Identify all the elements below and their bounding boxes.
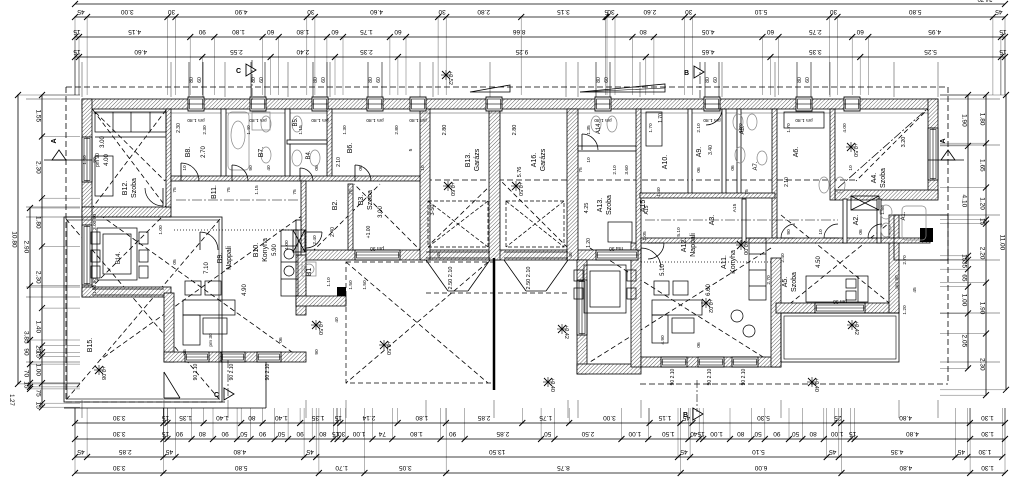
svg-text:30: 30 — [307, 8, 315, 15]
svg-text:+0.42: +0.42 — [563, 325, 569, 339]
svg-text:+0.50: +0.50 — [517, 182, 523, 196]
svg-text:A10.: A10. — [662, 155, 669, 169]
svg-text:2.50 2.10: 2.50 2.10 — [526, 267, 532, 290]
svg-text:80: 80 — [596, 77, 602, 83]
chimney guide a 3 — [312, 62, 314, 97]
level marker +0.00 A — [736, 240, 748, 255]
extension line right 6 — [940, 361, 1000, 363]
shaft box A4-A2 — [851, 196, 879, 210]
terrace diagonal B15 a — [66, 219, 220, 400]
svg-text:2.10: 2.10 — [336, 157, 342, 167]
svg-text:50: 50 — [277, 430, 285, 437]
chimney guide a 1 — [188, 62, 190, 97]
garage B13 ramp base — [448, 290, 468, 292]
dimension chain left inner — [34, 92, 45, 410]
window A12 bottom 1 — [661, 357, 687, 367]
extension line right 4 — [940, 259, 1000, 261]
window A5 bottom pm90 — [815, 303, 865, 313]
svg-text:15: 15 — [999, 48, 1007, 55]
section marker B top — [694, 66, 704, 78]
svg-text:pm 1.80: pm 1.80 — [366, 117, 384, 123]
svg-text:A1.: A1. — [901, 211, 907, 220]
door A14 — [582, 134, 598, 150]
extension line left 2 — [26, 206, 80, 208]
svg-text:2.55: 2.55 — [230, 48, 243, 55]
roof hip top-left — [84, 101, 165, 181]
black pillar right — [920, 228, 933, 242]
wall garage A16 east — [567, 109, 578, 260]
level marker +0.08 B15 — [94, 365, 106, 380]
svg-text:pm 1.80: pm 1.80 — [594, 117, 612, 123]
svg-text:2.50 2.10: 2.50 2.10 — [448, 267, 454, 290]
diagonal cross B12 a — [93, 110, 166, 207]
svg-text:50: 50 — [754, 430, 762, 437]
svg-text:pm 1.80: pm 1.80 — [187, 117, 205, 123]
svg-text:1.70: 1.70 — [658, 113, 664, 123]
exterior wall left bay — [82, 207, 92, 297]
svg-text:B13.: B13. — [465, 153, 472, 167]
extension line bottom 2 — [163, 400, 165, 418]
garage B13 threshold a — [426, 251, 490, 253]
garage A16 floor box — [506, 201, 564, 247]
garage B13 cross a — [428, 201, 488, 247]
toilet A2 — [819, 177, 829, 193]
exterior wall B9 bottom — [164, 352, 306, 362]
eaves line left — [65, 87, 67, 402]
partition A9-A8 — [722, 109, 726, 195]
svg-text:06: 06 — [858, 229, 864, 235]
extension line top 7 — [432, 62, 434, 97]
svg-text:1.80: 1.80 — [410, 430, 423, 437]
section marker C top — [246, 64, 256, 76]
svg-text:45: 45 — [680, 448, 688, 455]
svg-text:+0.40: +0.40 — [549, 378, 555, 392]
svg-text:4.90: 4.90 — [234, 8, 247, 15]
svg-text:3.40: 3.40 — [708, 145, 714, 155]
svg-text:50: 50 — [544, 430, 552, 437]
level marker +0.40 right low — [807, 377, 819, 392]
svg-text:Szoba: Szoba — [880, 168, 887, 188]
extension line left 5 — [26, 296, 80, 298]
svg-text:75: 75 — [744, 189, 750, 195]
svg-text:4.60: 4.60 — [134, 48, 147, 55]
dimension chain bottom row 1 — [72, 414, 1008, 426]
svg-text:45: 45 — [77, 8, 85, 15]
svg-text:1.40: 1.40 — [275, 414, 288, 421]
svg-text:2.10: 2.10 — [696, 123, 702, 133]
section line C upper — [251, 60, 253, 100]
svg-text:15: 15 — [73, 48, 81, 55]
extension line top 8 — [489, 62, 491, 97]
svg-text:B2.: B2. — [332, 200, 339, 211]
bed B12 — [95, 112, 166, 132]
svg-text:A6.: A6. — [793, 147, 800, 158]
window bay left 3.00 — [82, 225, 92, 285]
kitchen counter A11 — [749, 238, 766, 300]
partition A1 west — [877, 199, 881, 243]
roof diagonal A12 b — [590, 248, 771, 362]
roof diagonal A5 b — [781, 215, 899, 311]
garage B13 ramp right — [468, 260, 490, 291]
svg-text:06: 06 — [182, 349, 188, 355]
extension line bottom 10 — [640, 400, 642, 418]
svg-text:60: 60 — [376, 77, 382, 83]
svg-text:15: 15 — [978, 218, 985, 226]
ridge dash-dot A4 — [838, 110, 926, 188]
svg-text:pm 90: pm 90 — [370, 245, 384, 251]
door A9 — [706, 109, 722, 125]
partition A2 west — [843, 199, 847, 243]
svg-text:90 2.10: 90 2.10 — [741, 368, 747, 385]
svg-text:60: 60 — [604, 77, 610, 83]
sink A1 — [880, 205, 892, 219]
svg-text:C: C — [214, 392, 219, 399]
svg-text:40: 40 — [266, 165, 272, 171]
exterior wall A12 bottom — [641, 357, 781, 367]
terrace edge middle — [346, 262, 494, 383]
window top wall 10 — [844, 97, 860, 111]
svg-text:1.20: 1.20 — [978, 197, 985, 210]
garage B13 threshold b — [426, 257, 490, 259]
svg-text:06: 06 — [696, 167, 702, 173]
svg-text:30: 30 — [685, 8, 693, 15]
svg-text:75: 75 — [578, 167, 584, 173]
window B3 bottom pm90 — [355, 250, 400, 260]
svg-text:4.80: 4.80 — [233, 448, 246, 455]
svg-text:50: 50 — [792, 430, 800, 437]
door A3 — [781, 224, 795, 238]
svg-text:90: 90 — [176, 430, 184, 437]
chimney guide b 6 — [718, 62, 720, 97]
dimension chain left lower partial — [22, 205, 33, 392]
svg-text:1.40: 1.40 — [656, 187, 662, 197]
svg-text:45: 45 — [568, 252, 574, 258]
svg-text:90: 90 — [773, 430, 781, 437]
window top wall 6 — [486, 97, 502, 111]
svg-text:pm 90: pm 90 — [894, 275, 900, 289]
svg-text:10.80: 10.80 — [10, 231, 17, 248]
svg-text:A14.: A14. — [596, 121, 602, 134]
chimney guide b 5 — [609, 62, 611, 97]
garage B13 floor box — [428, 201, 488, 247]
svg-text:45: 45 — [165, 448, 173, 455]
svg-text:Garázs: Garázs — [474, 148, 481, 171]
svg-text:4.80: 4.80 — [899, 414, 912, 421]
svg-text:1.70: 1.70 — [738, 123, 744, 133]
corridor guide line A15 — [645, 219, 838, 221]
svg-text:5.10: 5.10 — [752, 448, 765, 455]
roof slope arrow 1 — [470, 85, 510, 92]
svg-text:90: 90 — [221, 430, 229, 437]
armchairs A12 — [654, 281, 669, 295]
door B6 — [355, 165, 371, 181]
garage B13 ramp left — [426, 260, 448, 291]
svg-text:80: 80 — [313, 77, 319, 83]
svg-text:+0.40: +0.40 — [813, 378, 819, 392]
toilet B5 — [292, 116, 302, 132]
svg-text:2.30: 2.30 — [176, 123, 182, 133]
svg-text:1.20: 1.20 — [586, 238, 592, 248]
svg-text:3.20: 3.20 — [901, 137, 907, 148]
eaves line right — [947, 87, 949, 384]
extension line top 9 — [565, 62, 567, 97]
svg-text:1.90: 1.90 — [960, 114, 967, 127]
extension line top 13 — [774, 62, 776, 97]
svg-text:1.00: 1.00 — [158, 225, 164, 235]
svg-text:Konyha: Konyha — [262, 238, 269, 262]
chimney guide a 6 — [704, 62, 706, 97]
svg-text:5.76: 5.76 — [517, 167, 523, 178]
svg-text:90: 90 — [198, 28, 206, 35]
svg-text:pm 1.80: pm 1.80 — [795, 117, 813, 123]
extension line bottom 8 — [567, 400, 569, 418]
window A12 bottom 3 — [732, 357, 758, 367]
extension line top 5 — [329, 62, 331, 97]
chimney guide a 7 — [796, 62, 798, 97]
svg-text:1.00: 1.00 — [960, 294, 967, 307]
svg-text:+0.60: +0.60 — [449, 182, 455, 196]
svg-text:A5.: A5. — [782, 277, 789, 288]
washer B1 — [302, 262, 316, 276]
svg-text:1.50: 1.50 — [662, 430, 675, 437]
svg-text:2.40: 2.40 — [312, 235, 318, 245]
svg-text:1.27: 1.27 — [8, 394, 14, 406]
svg-text:4.05: 4.05 — [701, 28, 714, 35]
window left wall pm90 — [82, 137, 92, 182]
svg-text:34.70: 34.70 — [977, 0, 993, 1]
wall B1 bottom — [296, 296, 346, 306]
svg-text:2.14: 2.14 — [362, 414, 375, 421]
kitchen counter B10 — [281, 230, 298, 296]
terrace door B lines a — [92, 288, 164, 290]
svg-text:45: 45 — [436, 252, 442, 258]
garage A16 ramp right — [546, 260, 568, 291]
svg-text:1.70: 1.70 — [335, 464, 348, 471]
svg-text:5.90: 5.90 — [272, 244, 278, 256]
svg-text:90: 90 — [296, 430, 304, 437]
section line B lower — [696, 380, 698, 412]
wall garage B13 west — [420, 109, 430, 260]
bay wall bottom B14 — [82, 287, 171, 297]
sink A7b — [757, 151, 767, 165]
svg-text:2.20: 2.20 — [978, 247, 985, 260]
extension line top 2 — [170, 62, 172, 97]
section marker A left — [52, 150, 66, 160]
door B2 — [306, 232, 322, 248]
terrace B15 step right — [265, 362, 267, 408]
level marker +0.02 A terrace — [701, 298, 713, 313]
svg-text:60: 60 — [321, 77, 327, 83]
svg-text:80: 80 — [737, 430, 745, 437]
svg-text:1.35: 1.35 — [586, 125, 592, 135]
svg-text:90: 90 — [22, 348, 29, 356]
svg-text:15: 15 — [334, 414, 342, 421]
svg-text:1.75: 1.75 — [360, 28, 373, 35]
partition B1 west — [296, 220, 301, 255]
partition B5-B4 — [287, 140, 327, 144]
svg-text:45: 45 — [995, 8, 1003, 15]
svg-text:1.30: 1.30 — [978, 448, 991, 455]
bay wall top B14 — [82, 207, 171, 217]
svg-text:11.00: 11.00 — [998, 235, 1005, 251]
svg-text:60: 60 — [259, 77, 265, 83]
svg-text:1.00: 1.00 — [352, 430, 365, 437]
svg-text:2.40: 2.40 — [330, 227, 336, 237]
partition B8-B7 — [221, 109, 226, 180]
svg-text:30: 30 — [167, 8, 175, 15]
extension line top 12 — [721, 62, 723, 97]
svg-text:2.70: 2.70 — [766, 275, 772, 285]
svg-text:4.65: 4.65 — [701, 48, 714, 55]
svg-text:2.40: 2.40 — [780, 253, 786, 263]
extension line bottom 1 — [81, 400, 83, 418]
svg-text:74: 74 — [378, 430, 386, 437]
balcony right outline — [894, 215, 948, 260]
svg-text:90: 90 — [92, 157, 98, 163]
terrace B15 inner — [67, 220, 219, 399]
svg-text:1.35: 1.35 — [179, 414, 192, 421]
svg-text:2.30: 2.30 — [34, 161, 41, 174]
svg-text:45: 45 — [829, 448, 837, 455]
svg-text:15: 15 — [697, 430, 705, 437]
terrace A5 inner — [784, 316, 896, 359]
level marker +0.52 top — [441, 70, 453, 85]
svg-text:60: 60 — [394, 28, 402, 35]
svg-text:B: B — [683, 412, 688, 419]
svg-text:9.25: 9.25 — [515, 48, 528, 55]
svg-text:B: B — [684, 70, 689, 77]
svg-text:60: 60 — [331, 28, 339, 35]
svg-text:1.70: 1.70 — [648, 123, 654, 133]
roof valley diagonal B9 a — [100, 215, 303, 360]
svg-text:25: 25 — [834, 414, 842, 421]
dimension chain right mid — [978, 92, 989, 398]
section line C lower — [227, 360, 229, 396]
dining table A — [584, 265, 626, 313]
svg-text:30: 30 — [829, 8, 837, 15]
garage A16 ramp base — [526, 290, 546, 292]
svg-text:2.70: 2.70 — [201, 146, 207, 158]
svg-text:10: 10 — [818, 229, 824, 235]
svg-text:4.00: 4.00 — [104, 154, 110, 166]
svg-text:B14.: B14. — [116, 251, 122, 264]
svg-text:15: 15 — [34, 351, 41, 359]
svg-text:2.60: 2.60 — [643, 8, 656, 15]
svg-text:10: 10 — [848, 165, 854, 171]
svg-text:15: 15 — [34, 402, 41, 410]
svg-text:3.30: 3.30 — [113, 414, 126, 421]
extension guide lines vertical chains — [17, 95, 1007, 407]
svg-text:45: 45 — [306, 448, 314, 455]
svg-text:90 2.10: 90 2.10 — [670, 368, 676, 385]
step triangle bottom-left a — [164, 372, 180, 398]
window top wall 9 — [796, 97, 812, 111]
svg-text:90: 90 — [314, 349, 320, 355]
exterior wall A5 bottom — [776, 303, 899, 313]
svg-text:1.80: 1.80 — [978, 113, 985, 126]
svg-text:1.70: 1.70 — [786, 123, 792, 133]
svg-text:3.15: 3.15 — [557, 8, 570, 15]
svg-text:B7.: B7. — [258, 147, 265, 158]
svg-text:30: 30 — [607, 8, 615, 15]
svg-text:45: 45 — [957, 448, 965, 455]
svg-text:B1: B1 — [306, 268, 313, 277]
terrace B15 step bottom — [64, 407, 266, 409]
extension line right 2 — [940, 144, 1000, 146]
svg-text:B4.: B4. — [306, 150, 312, 159]
svg-text:75: 75 — [292, 189, 298, 195]
svg-text:pm 1.80: pm 1.80 — [703, 117, 721, 123]
party wall between garages — [489, 99, 500, 260]
svg-text:2.75: 2.75 — [809, 28, 822, 35]
svg-text:80: 80 — [639, 28, 647, 35]
svg-text:5.10: 5.10 — [754, 8, 767, 15]
svg-text:4.00: 4.00 — [842, 123, 848, 133]
partition A3-A15 — [742, 199, 746, 243]
svg-text:60: 60 — [766, 28, 774, 35]
window B9 bottom 1 — [185, 352, 209, 362]
svg-text:B12.: B12. — [122, 181, 129, 195]
svg-text:90 2.10: 90 2.10 — [229, 363, 235, 380]
extension line bottom 6 — [425, 400, 427, 418]
svg-text:8.66: 8.66 — [513, 28, 526, 35]
svg-text:1.15: 1.15 — [254, 185, 260, 195]
svg-text:3-50: 3-50 — [430, 204, 436, 215]
window top wall 3 — [312, 97, 328, 111]
level marker +0.42 right — [847, 320, 859, 335]
svg-text:6.60: 6.60 — [706, 284, 712, 296]
roof valley diagonal B9 b — [100, 215, 303, 360]
svg-text:4.90: 4.90 — [242, 284, 248, 296]
door A15 entry — [648, 243, 664, 259]
exterior wall A5 east — [889, 215, 899, 313]
svg-text:B10.: B10. — [253, 243, 260, 257]
svg-text:75: 75 — [34, 390, 41, 398]
svg-text:B8.: B8. — [185, 147, 192, 158]
svg-text:+0.42: +0.42 — [853, 321, 859, 335]
svg-text:60: 60 — [713, 77, 719, 83]
step triangle bottom-left c — [164, 397, 180, 399]
partition A7-A8 — [737, 109, 741, 195]
svg-text:1.50: 1.50 — [348, 280, 354, 290]
svg-text:60: 60 — [856, 28, 864, 35]
partition B7-B4 — [285, 109, 290, 180]
section line B upper — [699, 62, 701, 100]
svg-text:3.00 90: 3.00 90 — [92, 214, 98, 230]
svg-text:15: 15 — [161, 414, 169, 421]
svg-text:65: 65 — [960, 274, 967, 282]
svg-text:90 2.10: 90 2.10 — [265, 363, 271, 380]
dimension chain top overall — [72, 0, 1008, 7]
svg-text:10: 10 — [420, 165, 426, 171]
svg-text:1.05: 1.05 — [642, 231, 648, 241]
roof diagonal A5 a — [781, 215, 899, 311]
door B12 — [145, 188, 163, 206]
svg-text:pm 90: pm 90 — [833, 298, 847, 304]
svg-text:B11.: B11. — [211, 185, 218, 199]
chairs B14 — [91, 232, 100, 244]
armchairs B9 — [185, 281, 201, 295]
svg-text:4.90: 4.90 — [660, 335, 666, 345]
svg-text:1.80: 1.80 — [232, 28, 245, 35]
extension line right 3 — [940, 214, 1000, 216]
svg-text:5.10: 5.10 — [676, 227, 682, 237]
svg-text:3.35: 3.35 — [809, 48, 822, 55]
dimension chain top row 3 — [72, 48, 1008, 60]
svg-text:4.95: 4.95 — [928, 28, 941, 35]
roof ridge line — [165, 179, 857, 181]
svg-text:75: 75 — [348, 189, 354, 195]
